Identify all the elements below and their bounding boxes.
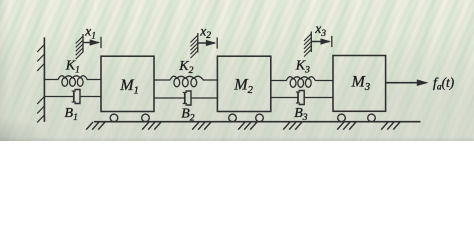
svg-text:M2: M2 [233, 77, 253, 96]
label M2 [233, 77, 253, 96]
spring K2 [154, 76, 217, 87]
svg-text:x3: x3 [314, 21, 326, 39]
wall (left fixed support) [37, 37, 44, 122]
damper B3 [271, 91, 333, 105]
label x3 [314, 21, 326, 39]
svg-text:M3: M3 [351, 73, 371, 92]
svg-text:fa(t): fa(t) [433, 75, 454, 93]
svg-text:x1: x1 [84, 24, 96, 42]
mass M1 [101, 56, 154, 111]
displacement reference x1 [76, 34, 101, 59]
label M3 [351, 73, 371, 92]
svg-text:K1: K1 [65, 59, 80, 76]
spring K3 [271, 77, 333, 88]
mass M2 [217, 56, 270, 111]
label B2 [181, 106, 195, 123]
damper B1 [45, 90, 102, 104]
spring K1 [45, 76, 102, 87]
damper B2 [154, 91, 217, 105]
mass M3 [333, 56, 386, 112]
svg-text:M1: M1 [119, 77, 139, 96]
label K2 [178, 59, 193, 76]
ground hatching [86, 122, 400, 130]
rollers under M2 [229, 114, 264, 122]
svg-text:x2: x2 [199, 23, 211, 41]
svg-text:B1: B1 [65, 106, 78, 123]
rollers under M1 [110, 114, 149, 122]
label M1 [119, 77, 139, 96]
displacement reference x2 [191, 33, 218, 58]
svg-text:K3: K3 [295, 59, 310, 76]
svg-text:B3: B3 [294, 106, 308, 123]
label K1 [65, 59, 80, 76]
label x1 [84, 24, 96, 42]
svg-text:K2: K2 [178, 59, 193, 76]
displacement reference x3 [304, 32, 332, 57]
rollers under M3 [338, 114, 376, 122]
ground line [94, 121, 421, 123]
label K3 [295, 59, 310, 76]
svg-text:B2: B2 [181, 106, 195, 123]
label B1 [65, 106, 78, 123]
label B3 [294, 106, 308, 123]
label f_a(t) [433, 75, 454, 93]
applied force arrow f_a(t) [386, 79, 429, 86]
label x2 [199, 23, 211, 41]
